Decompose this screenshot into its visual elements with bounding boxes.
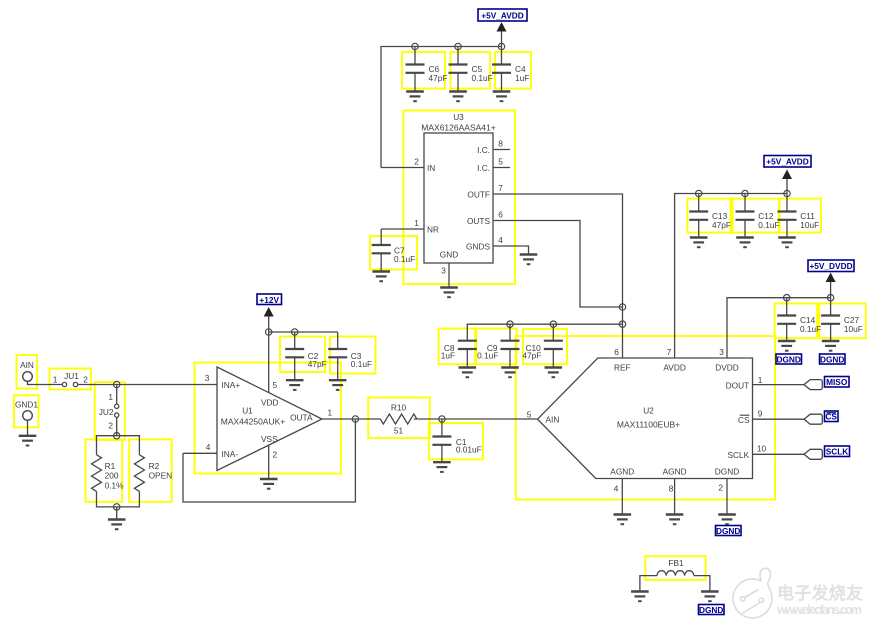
ground C7 xyxy=(372,272,390,282)
junction OUTS node xyxy=(619,304,625,310)
junction C12 xyxy=(742,190,748,196)
svg-text:NR: NR xyxy=(427,225,439,235)
svg-text:2: 2 xyxy=(718,483,723,493)
ground C14 xyxy=(778,341,796,351)
capacitor C10 47pF xyxy=(522,324,562,367)
wire C8 rail xyxy=(467,324,622,341)
svg-text:0.1uF: 0.1uF xyxy=(800,324,821,334)
highlight box C4 xyxy=(495,52,531,89)
highlight box AIN xyxy=(17,355,38,389)
svg-text:1: 1 xyxy=(414,218,419,228)
wire U2 pin 4 AGND xyxy=(614,479,623,515)
highlight box C11 xyxy=(780,199,821,233)
wire R bottom to ground xyxy=(116,507,118,519)
highlight box C12 xyxy=(733,199,779,233)
svg-text:REF: REF xyxy=(614,363,631,373)
ground U3 pin3 xyxy=(440,288,458,298)
wire U3 pin 1 NR xyxy=(381,218,424,229)
wire FB1 right xyxy=(694,576,710,591)
svg-text:OUTF: OUTF xyxy=(467,190,490,200)
capacitor C12 0.1uF xyxy=(736,194,780,238)
ground VSS xyxy=(260,479,278,489)
ground C13 xyxy=(690,238,708,248)
junction top rail C6 xyxy=(412,43,418,49)
svg-text:2: 2 xyxy=(273,450,278,460)
svg-text:4: 4 xyxy=(498,235,503,245)
svg-text:1uF: 1uF xyxy=(515,73,529,83)
ground C8 xyxy=(459,368,477,378)
net label DGND U2 xyxy=(716,526,742,536)
svg-text:OUTA: OUTA xyxy=(290,413,313,423)
svg-text:10: 10 xyxy=(757,444,767,454)
capacitor C14 0.1uF xyxy=(777,298,821,341)
junction R bottom xyxy=(114,504,120,510)
highlight box C5 xyxy=(451,52,491,89)
wire U1 pin 4 INA- xyxy=(183,442,217,453)
svg-text:51: 51 xyxy=(394,426,404,436)
ground GNDS xyxy=(520,255,538,265)
svg-text:200: 200 xyxy=(105,471,119,481)
svg-text:0.1uF: 0.1uF xyxy=(351,359,372,369)
svg-text:DGND: DGND xyxy=(699,605,723,615)
capacitor C4 1uF xyxy=(492,47,529,92)
svg-text:MISO: MISO xyxy=(826,377,848,387)
power arrow +5V_DVDD xyxy=(826,273,836,298)
wire JU1 to INA+ xyxy=(78,384,117,386)
jumper JU1 xyxy=(53,371,89,387)
svg-text:7: 7 xyxy=(498,183,503,193)
highlight box C10 xyxy=(523,329,567,364)
capacitor C2 47pF xyxy=(285,332,327,380)
highlight box FB1 xyxy=(645,556,705,580)
junction OUTA xyxy=(352,416,358,422)
highlight box C6 xyxy=(402,52,445,89)
port tag CS xyxy=(804,414,822,424)
ground C6 xyxy=(406,92,424,102)
wire DVDD rail xyxy=(727,298,831,358)
junction C1 xyxy=(439,416,445,422)
power +12V label xyxy=(257,294,282,305)
wire U2 pin 8 AGND xyxy=(669,479,675,515)
ground C27 xyxy=(822,341,840,351)
capacitor C13 47pF xyxy=(689,194,731,238)
highlight box JU1 xyxy=(50,369,92,390)
svg-text:R10: R10 xyxy=(391,403,407,413)
svg-text:2: 2 xyxy=(108,421,113,431)
ferrite bead FB1 xyxy=(657,558,694,576)
wire U3 pin 4 GNDS xyxy=(493,235,529,254)
capacitor C3 0.1uF xyxy=(328,332,372,380)
svg-text:8: 8 xyxy=(498,139,503,149)
svg-text:GNDS: GNDS xyxy=(466,242,490,252)
svg-text:0.1uF: 0.1uF xyxy=(394,254,415,264)
svg-text:AIN: AIN xyxy=(20,360,34,370)
highlight box C2 xyxy=(280,337,325,373)
ground C3 xyxy=(329,380,347,390)
port tag MISO xyxy=(804,380,822,390)
svg-text:7: 7 xyxy=(667,347,672,357)
pin U3 5 I.C. xyxy=(493,157,510,168)
wire U2 pin 1 DOUT xyxy=(753,375,805,385)
svg-text:SCLK: SCLK xyxy=(728,450,750,460)
junction C8 rail OUTF xyxy=(619,321,625,327)
svg-text:MAX11100EUB+: MAX11100EUB+ xyxy=(617,420,680,430)
svg-text:+5V_DVDD: +5V_DVDD xyxy=(809,261,852,271)
highlight box R2 xyxy=(129,439,172,501)
svg-text:AIN: AIN xyxy=(546,415,560,425)
svg-text:VSS: VSS xyxy=(261,434,278,444)
ground U2 pin4 xyxy=(614,515,632,525)
highlight box GND1 xyxy=(14,395,39,427)
svg-text:1: 1 xyxy=(108,392,113,402)
highlight box R1 xyxy=(86,439,123,501)
ground R1 R2 xyxy=(108,520,126,530)
op IC U3 MAX6126AASA41+ body xyxy=(421,112,495,263)
svg-text:SCLK: SCLK xyxy=(826,447,849,457)
net label SCLK xyxy=(825,446,850,457)
ground C11 xyxy=(778,238,796,248)
svg-text:4: 4 xyxy=(206,442,211,452)
svg-text:1uF: 1uF xyxy=(441,351,455,361)
junction C10 xyxy=(550,321,556,327)
wire R1 R2 bottoms xyxy=(97,491,140,507)
wire +12V rail xyxy=(269,331,338,333)
svg-text:JU2: JU2 xyxy=(99,407,114,417)
svg-text:3: 3 xyxy=(205,373,210,383)
wire U2 pin 2 DGND xyxy=(718,479,727,515)
svg-text:FB1: FB1 xyxy=(668,558,684,568)
op-amp U1 MAX44250AUK+ xyxy=(217,367,322,471)
svg-text:U2: U2 xyxy=(643,406,654,416)
net label DGND FB1 xyxy=(699,605,725,615)
ground FB1 left xyxy=(631,592,649,602)
wire U3 pin 7 OUTF to node xyxy=(493,183,623,358)
ground C12 xyxy=(736,238,754,248)
ground U2 pin8 xyxy=(666,515,684,525)
svg-text:0.1%: 0.1% xyxy=(105,480,125,490)
wire U1 pin 3 INA+ xyxy=(117,373,217,385)
junction C14 xyxy=(784,295,790,301)
wire U2 pin 9 CS xyxy=(753,408,805,419)
svg-text:3: 3 xyxy=(719,347,724,357)
net label CS xyxy=(825,411,839,422)
svg-text:电子发烧友: 电子发烧友 xyxy=(777,583,863,603)
svg-text:47pF: 47pF xyxy=(429,73,448,83)
capacitor C5 0.1uF xyxy=(449,47,493,92)
svg-text:GND1: GND1 xyxy=(15,400,38,410)
svg-text:OUTS: OUTS xyxy=(467,216,491,226)
ground C4 xyxy=(493,92,511,102)
power +5V_AVDD label right xyxy=(764,156,811,168)
power arrow +5V_AVDD right xyxy=(782,170,792,194)
svg-text:2: 2 xyxy=(83,375,88,385)
svg-text:R2: R2 xyxy=(149,461,160,471)
svg-text:0.01uF: 0.01uF xyxy=(456,445,482,455)
junction C27 xyxy=(827,295,833,301)
svg-text:U1: U1 xyxy=(242,406,253,416)
ADC U2 MAX11100EUB+ body xyxy=(538,358,753,479)
capacitor C1 0.01uF xyxy=(432,419,481,462)
svg-text:DGND: DGND xyxy=(820,354,844,364)
capacitor C7 0.1uF xyxy=(372,229,416,271)
svg-text:10uF: 10uF xyxy=(844,324,863,334)
svg-text:I.C.: I.C. xyxy=(477,163,490,173)
svg-text:MAX6126AASA41+: MAX6126AASA41+ xyxy=(421,123,495,133)
wire AVDD rail right xyxy=(675,194,787,359)
ground U2 pin2 xyxy=(718,515,736,525)
ground C5 xyxy=(449,92,467,102)
wire U3 pin 2 IN xyxy=(381,157,424,168)
svg-text:5: 5 xyxy=(498,157,503,167)
resistor R2 OPEN xyxy=(134,455,172,492)
svg-text:1: 1 xyxy=(758,375,763,385)
wire FB1 left xyxy=(640,576,657,591)
ground C2 xyxy=(286,380,304,390)
svg-text:JU1: JU1 xyxy=(64,371,79,381)
svg-text:DGND: DGND xyxy=(716,526,740,536)
svg-text:6: 6 xyxy=(614,347,619,357)
svg-text:6: 6 xyxy=(498,210,503,220)
highlight box C27 xyxy=(819,304,866,339)
capacitor C6 47pF xyxy=(406,47,448,92)
jumper JU2 xyxy=(99,385,119,436)
wire feedback OUTA to INA- xyxy=(183,419,355,502)
svg-text:+12V: +12V xyxy=(259,295,279,305)
net label MISO xyxy=(825,377,850,388)
svg-text:INA+: INA+ xyxy=(222,380,241,390)
power +5V_DVDD label xyxy=(808,260,854,272)
svg-text:47pF: 47pF xyxy=(308,359,327,369)
highlight box C13 xyxy=(687,199,730,233)
highlight box JU2 xyxy=(95,382,125,440)
ground C10 xyxy=(545,368,563,378)
svg-text:0.1uF: 0.1uF xyxy=(472,73,493,83)
svg-text:1: 1 xyxy=(328,408,333,418)
highlight box C8 xyxy=(439,329,476,365)
highlight box C7 xyxy=(370,236,417,270)
junction top rail C5 xyxy=(455,43,461,49)
svg-text:DOUT: DOUT xyxy=(726,381,750,391)
wire U3 pin 3 GND xyxy=(441,263,449,287)
capacitor C8 1uF xyxy=(441,341,477,367)
svg-text:0.1uF: 0.1uF xyxy=(758,220,779,230)
svg-text:+5V_AVDD: +5V_AVDD xyxy=(766,157,809,167)
wire R10 to U2 AIN xyxy=(414,418,538,420)
wire U1 pin 2 VSS xyxy=(269,446,278,479)
svg-text:U3: U3 xyxy=(453,112,464,122)
svg-text:47pF: 47pF xyxy=(712,220,731,230)
svg-text:AVDD: AVDD xyxy=(663,363,685,373)
svg-text:IN: IN xyxy=(427,163,435,173)
junction VDD xyxy=(266,329,272,335)
watermark logo elecfans xyxy=(733,568,772,618)
ground FB1 right xyxy=(701,592,719,602)
svg-text:OPEN: OPEN xyxy=(149,471,173,481)
svg-text:4: 4 xyxy=(614,484,619,494)
highlight box U2 xyxy=(516,336,775,500)
net label DGND C14 xyxy=(776,354,802,364)
svg-text:9: 9 xyxy=(758,408,763,418)
highlight box U1 xyxy=(195,363,342,474)
svg-text:www.elecfans.com: www.elecfans.com xyxy=(776,603,862,617)
svg-text:10uF: 10uF xyxy=(800,220,819,230)
port tag SCLK xyxy=(804,449,822,459)
resistor R1 200 0.1% xyxy=(92,455,125,492)
highlight box R10 xyxy=(368,398,430,439)
wire U3 pin 6 OUTS xyxy=(493,210,623,308)
svg-text:2: 2 xyxy=(414,157,419,167)
capacitor C27 10uF xyxy=(821,298,863,341)
power arrow +12V xyxy=(264,307,274,332)
junction R1 R2 top xyxy=(114,433,120,439)
svg-text:GND: GND xyxy=(440,250,458,260)
wire U1 pin 1 OUTA xyxy=(322,408,355,420)
junction C13 xyxy=(696,190,702,196)
svg-text:I.C.: I.C. xyxy=(477,145,490,155)
junction top rail C4 xyxy=(498,43,504,49)
highlight box C1 xyxy=(429,423,483,459)
wire to R1 R2 tops xyxy=(97,436,140,455)
highlight box C9 xyxy=(476,329,516,365)
svg-text:VDD: VDD xyxy=(261,398,279,408)
wire U1 VDD pin 5 xyxy=(269,332,278,393)
svg-text:R1: R1 xyxy=(105,461,116,471)
ground C9 xyxy=(501,368,519,378)
svg-text:47pF: 47pF xyxy=(522,351,541,361)
wire U2 pin 10 SCLK xyxy=(753,444,805,455)
connector GND1 xyxy=(15,400,38,436)
svg-text:3: 3 xyxy=(441,266,446,276)
svg-text:CS: CS xyxy=(738,415,750,425)
highlight box C14 xyxy=(775,304,818,339)
capacitor C11 10uF xyxy=(778,194,820,238)
connector AIN xyxy=(20,360,62,385)
junction C9 xyxy=(507,321,513,327)
svg-text:DGND: DGND xyxy=(715,467,739,477)
junction JU2 top xyxy=(114,381,120,387)
ground C1 xyxy=(433,462,451,472)
pin U3 8 I.C. xyxy=(493,139,510,150)
resistor R10 51 xyxy=(355,403,417,436)
svg-text:+5V_AVDD: +5V_AVDD xyxy=(481,11,524,21)
highlight box C3 xyxy=(330,337,376,374)
power +5V_AVDD label top xyxy=(478,9,527,21)
junction C2 xyxy=(292,329,298,335)
svg-text:8: 8 xyxy=(669,484,674,494)
wire AVDD top rail xyxy=(381,47,502,168)
svg-text:DVDD: DVDD xyxy=(715,363,739,373)
junction C11 xyxy=(784,190,790,196)
svg-text:0.1uF: 0.1uF xyxy=(477,351,498,361)
svg-text:MAX44250AUK+: MAX44250AUK+ xyxy=(221,417,286,427)
power arrow +5V_AVDD top xyxy=(497,22,507,47)
svg-text:INA-: INA- xyxy=(222,449,239,459)
net label DGND C27 xyxy=(820,354,846,364)
ground GND1 xyxy=(19,436,37,446)
svg-text:5: 5 xyxy=(527,410,532,420)
svg-text:1: 1 xyxy=(53,375,58,385)
highlight box U3 xyxy=(404,111,516,285)
capacitor C9 0.1uF xyxy=(477,324,519,367)
svg-text:AGND: AGND xyxy=(610,467,634,477)
svg-text:AGND: AGND xyxy=(663,467,687,477)
svg-text:DGND: DGND xyxy=(776,354,800,364)
svg-text:5: 5 xyxy=(273,380,278,390)
